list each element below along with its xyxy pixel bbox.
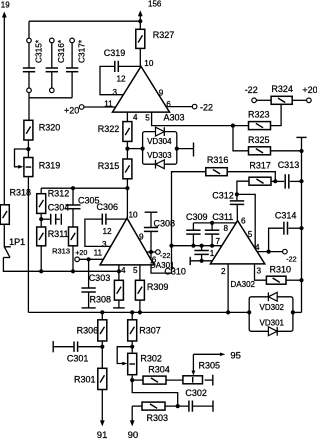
svg-text:12: 12: [117, 75, 127, 84]
svg-text:12: 12: [103, 227, 113, 236]
svg-text:1: 1: [210, 249, 215, 258]
svg-text:R323: R323: [248, 110, 270, 120]
svg-text:+20: +20: [64, 105, 79, 115]
svg-text:5: 5: [248, 230, 253, 239]
svg-text:C314: C314: [275, 210, 297, 220]
svg-text:C319: C319: [104, 48, 126, 58]
svg-text:6: 6: [241, 216, 246, 225]
svg-text:R304: R304: [148, 365, 170, 375]
svg-text:156: 156: [148, 0, 162, 9]
svg-text:90: 90: [128, 430, 139, 440]
svg-text:4: 4: [121, 266, 126, 275]
svg-text:-22: -22: [245, 85, 258, 95]
svg-text:9: 9: [159, 89, 164, 98]
svg-text:R308: R308: [90, 294, 112, 304]
svg-text:3: 3: [257, 267, 262, 276]
svg-text:R318: R318: [10, 188, 32, 198]
svg-text:C313: C313: [278, 160, 300, 170]
svg-text:VD303: VD303: [147, 151, 172, 160]
svg-text:C301: C301: [67, 353, 89, 363]
svg-text:VD302: VD302: [260, 303, 285, 312]
svg-text:10: 10: [144, 59, 154, 68]
svg-text:R307: R307: [139, 326, 161, 336]
svg-text:R317: R317: [249, 161, 271, 171]
svg-text:2: 2: [221, 267, 226, 276]
svg-text:DA301: DA301: [150, 261, 175, 270]
svg-text:11: 11: [94, 249, 103, 258]
svg-text:VD304: VD304: [147, 137, 172, 146]
svg-text:R312: R312: [48, 189, 70, 199]
svg-text:4: 4: [255, 243, 260, 252]
svg-text:7: 7: [216, 237, 221, 246]
svg-text:C312: C312: [212, 190, 234, 200]
svg-text:1P1: 1P1: [9, 237, 25, 247]
svg-text:R306: R306: [77, 326, 99, 336]
svg-text:6: 6: [166, 100, 171, 109]
svg-text:R316: R316: [207, 155, 229, 165]
svg-text:+20: +20: [302, 85, 317, 95]
svg-text:R309: R309: [147, 282, 169, 292]
svg-text:10: 10: [129, 211, 139, 220]
svg-text:C311: C311: [212, 212, 233, 222]
svg-text:-22: -22: [286, 254, 296, 263]
svg-text:R301: R301: [74, 375, 96, 385]
svg-text:C309: C309: [186, 212, 208, 222]
svg-text:4: 4: [133, 113, 138, 122]
svg-text:R311: R311: [48, 229, 69, 239]
svg-text:+20: +20: [75, 248, 87, 257]
svg-text:91: 91: [97, 430, 108, 440]
svg-text:R320: R320: [39, 122, 61, 132]
svg-text:-22: -22: [160, 251, 170, 260]
svg-text:DA302: DA302: [231, 280, 256, 289]
svg-text:R305: R305: [199, 361, 221, 371]
svg-text:C304: C304: [48, 202, 70, 212]
svg-text:R319: R319: [39, 160, 61, 170]
svg-text:11: 11: [104, 100, 113, 109]
svg-text:VD301: VD301: [260, 319, 285, 328]
svg-text:R313: R313: [52, 247, 70, 256]
svg-text:C317*: C317*: [76, 39, 86, 63]
svg-text:R325: R325: [248, 135, 270, 145]
svg-text:R310: R310: [270, 265, 292, 275]
svg-text:R303: R303: [147, 413, 169, 423]
svg-text:A303: A303: [164, 113, 185, 123]
svg-text:8: 8: [224, 224, 229, 233]
svg-text:R302: R302: [140, 354, 162, 364]
svg-text:R315: R315: [98, 161, 120, 171]
svg-text:R327: R327: [153, 30, 175, 40]
svg-text:C316*: C316*: [56, 39, 66, 63]
svg-text:95: 95: [230, 351, 241, 362]
svg-text:5: 5: [133, 266, 138, 275]
svg-text:C302: C302: [185, 388, 207, 398]
svg-text:19: 19: [1, 0, 10, 9]
svg-text:C315*: C315*: [33, 39, 43, 63]
svg-text:R322: R322: [98, 124, 120, 134]
svg-text:C303: C303: [89, 273, 111, 283]
svg-text:3: 3: [113, 88, 118, 97]
svg-text:9: 9: [139, 233, 144, 242]
svg-text:C306: C306: [97, 202, 119, 212]
svg-text:R324: R324: [271, 84, 293, 94]
svg-text:5: 5: [145, 113, 150, 122]
svg-text:C308: C308: [154, 219, 176, 229]
svg-text:-22: -22: [200, 102, 213, 112]
svg-text:3: 3: [102, 240, 107, 249]
